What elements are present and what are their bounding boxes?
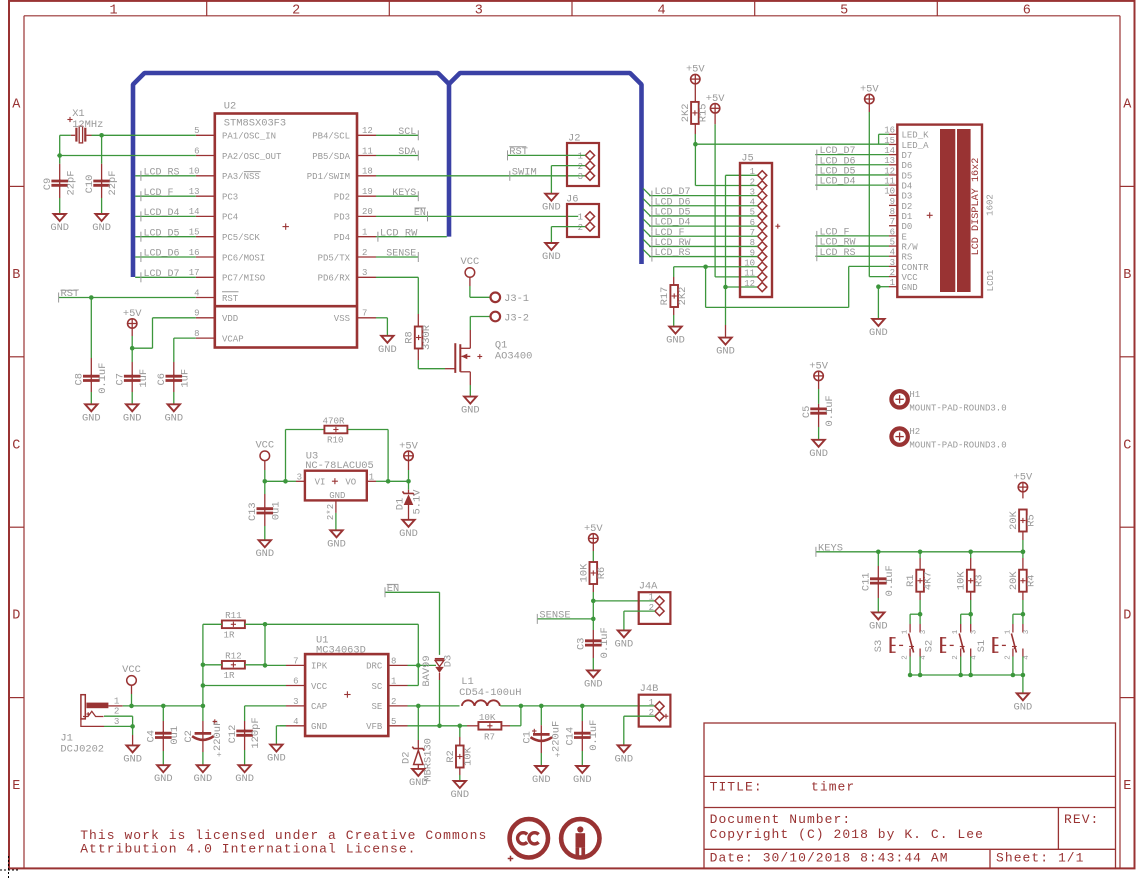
svg-text:3: 3 xyxy=(362,268,367,278)
svg-text:C5: C5 xyxy=(801,406,813,418)
svg-text:1: 1 xyxy=(750,167,755,177)
svg-text:D3: D3 xyxy=(442,655,454,667)
svg-text:2: 2 xyxy=(902,655,910,660)
svg-text:+5V: +5V xyxy=(809,360,828,372)
svg-text:11: 11 xyxy=(744,269,755,279)
svg-text:GND: GND xyxy=(614,753,633,765)
svg-text:14: 14 xyxy=(189,207,200,217)
svg-text:E: E xyxy=(1123,779,1131,794)
svg-text:D1: D1 xyxy=(902,212,913,222)
svg-text:470R: 470R xyxy=(323,416,346,427)
svg-text:1: 1 xyxy=(578,152,583,162)
svg-text:1602: 1602 xyxy=(985,194,995,216)
svg-text:MC34063D: MC34063D xyxy=(316,645,366,657)
svg-text:KEYS: KEYS xyxy=(818,542,843,554)
svg-text:J6: J6 xyxy=(566,194,578,206)
svg-text:GND: GND xyxy=(1014,701,1033,713)
svg-text:1: 1 xyxy=(902,629,910,634)
svg-text:0.1uF: 0.1uF xyxy=(884,565,896,596)
svg-text:LCD_D7: LCD_D7 xyxy=(144,269,180,280)
svg-text:10K: 10K xyxy=(462,746,474,765)
svg-text:GND: GND xyxy=(123,753,142,765)
svg-text:20K: 20K xyxy=(1008,510,1020,529)
svg-text:C9: C9 xyxy=(42,178,54,190)
svg-text:12: 12 xyxy=(362,126,373,136)
svg-text:A: A xyxy=(1123,98,1132,113)
svg-text:R7: R7 xyxy=(484,731,495,742)
svg-text:PD4: PD4 xyxy=(334,233,350,243)
svg-text:5: 5 xyxy=(840,4,848,19)
svg-text:5: 5 xyxy=(194,126,199,136)
svg-text:CAP: CAP xyxy=(311,702,327,712)
svg-text:R15: R15 xyxy=(698,104,710,123)
svg-text:+5V: +5V xyxy=(584,523,603,535)
svg-text:2: 2 xyxy=(1004,655,1012,660)
svg-text:C1: C1 xyxy=(521,731,533,743)
svg-text:8: 8 xyxy=(391,656,396,666)
svg-text:2*2: 2*2 xyxy=(326,504,336,520)
svg-text:GND: GND xyxy=(378,344,397,356)
svg-text:BAV99: BAV99 xyxy=(421,655,433,686)
svg-text:VDD: VDD xyxy=(222,314,238,324)
svg-text:2: 2 xyxy=(362,248,367,258)
svg-text:220uF: 220uF xyxy=(212,720,224,751)
svg-text:D5: D5 xyxy=(902,171,913,181)
svg-text:PC5/SCK: PC5/SCK xyxy=(222,233,260,243)
svg-text:+5V: +5V xyxy=(860,84,879,96)
svg-text:6: 6 xyxy=(194,146,199,156)
svg-text:J5: J5 xyxy=(741,153,753,165)
svg-text:4: 4 xyxy=(293,717,298,727)
svg-text:timer: timer xyxy=(811,780,855,795)
svg-text:PB5/SDA: PB5/SDA xyxy=(312,152,350,162)
svg-text:Q1: Q1 xyxy=(495,339,507,351)
svg-text:D: D xyxy=(1123,609,1131,624)
svg-text:GND: GND xyxy=(154,773,173,785)
svg-text:IPK: IPK xyxy=(311,662,328,672)
svg-text:VFB: VFB xyxy=(366,722,383,732)
svg-text:GND: GND xyxy=(716,346,735,358)
svg-text:LCD_RS: LCD_RS xyxy=(144,167,180,178)
svg-text:J2: J2 xyxy=(568,133,580,145)
svg-text:2: 2 xyxy=(952,655,960,660)
svg-text:2: 2 xyxy=(750,177,755,187)
svg-text:12MHz: 12MHz xyxy=(72,119,103,131)
svg-text:DRC: DRC xyxy=(366,662,383,672)
svg-text:C12: C12 xyxy=(227,725,239,744)
svg-text:C14: C14 xyxy=(565,727,577,746)
svg-text:GND: GND xyxy=(573,774,592,786)
svg-text:1: 1 xyxy=(952,629,960,634)
svg-text:4: 4 xyxy=(1023,655,1031,660)
svg-text:C6: C6 xyxy=(156,373,168,385)
svg-text:1: 1 xyxy=(1004,629,1012,634)
svg-text:+5V: +5V xyxy=(399,440,418,452)
svg-text:3: 3 xyxy=(293,697,298,707)
svg-text:11: 11 xyxy=(362,146,373,156)
svg-text:3: 3 xyxy=(920,629,928,634)
svg-text:SC: SC xyxy=(371,682,382,692)
svg-text:R10: R10 xyxy=(327,434,344,445)
svg-text:J3-1: J3-1 xyxy=(504,293,529,305)
svg-text:LCD_RS: LCD_RS xyxy=(655,248,691,259)
svg-text:PA3/NSS: PA3/NSS xyxy=(222,172,260,182)
svg-text:20: 20 xyxy=(362,207,373,217)
svg-text:GND: GND xyxy=(542,202,561,214)
svg-text:5: 5 xyxy=(890,237,895,247)
svg-text:LCD_F: LCD_F xyxy=(144,188,174,199)
svg-text:22pF: 22pF xyxy=(107,171,119,196)
svg-text:D6: D6 xyxy=(902,161,913,171)
svg-text:+: + xyxy=(216,750,221,760)
svg-text:0u1: 0u1 xyxy=(270,501,282,520)
svg-text:Attribution 4.0 International: Attribution 4.0 International License. xyxy=(80,842,416,857)
svg-text:R1: R1 xyxy=(905,574,917,586)
svg-text:16: 16 xyxy=(884,126,895,136)
svg-text:PC6/MOSI: PC6/MOSI xyxy=(222,253,265,263)
svg-text:C3: C3 xyxy=(576,638,588,650)
svg-text:RST: RST xyxy=(222,294,239,304)
svg-text:1: 1 xyxy=(649,593,654,603)
svg-text:VCC: VCC xyxy=(902,273,919,283)
svg-text:S1: S1 xyxy=(976,640,988,652)
svg-text:J4A: J4A xyxy=(639,581,658,593)
svg-text:LED_K: LED_K xyxy=(902,131,930,141)
svg-text:MOUNT-PAD-ROUND3.0: MOUNT-PAD-ROUND3.0 xyxy=(909,441,1006,451)
svg-text:5: 5 xyxy=(391,717,396,727)
svg-text:L1: L1 xyxy=(461,676,473,688)
svg-text:+: + xyxy=(555,751,560,761)
svg-text:1uF: 1uF xyxy=(138,369,150,388)
svg-text:2: 2 xyxy=(292,4,300,19)
svg-text:+5V: +5V xyxy=(1014,472,1033,484)
svg-text:S2: S2 xyxy=(924,640,936,652)
svg-text:D: D xyxy=(12,609,20,624)
svg-text:LCD_RS: LCD_RS xyxy=(820,248,856,259)
svg-text:C2: C2 xyxy=(183,730,195,742)
svg-text:PD2: PD2 xyxy=(334,193,350,203)
svg-text:GND: GND xyxy=(267,753,286,765)
svg-text:8: 8 xyxy=(890,207,895,217)
svg-text:SENSE: SENSE xyxy=(386,249,416,260)
svg-text:PC4: PC4 xyxy=(222,213,238,223)
svg-text:+5V: +5V xyxy=(123,308,142,320)
svg-text:REV:: REV: xyxy=(1064,812,1099,827)
svg-text:4: 4 xyxy=(194,288,199,298)
svg-text:8: 8 xyxy=(194,329,199,339)
svg-text:GND: GND xyxy=(82,412,101,424)
svg-text:PD6/RX: PD6/RX xyxy=(318,274,351,284)
svg-text:GND: GND xyxy=(409,777,428,789)
svg-text:GND: GND xyxy=(164,412,183,424)
svg-text:3: 3 xyxy=(578,172,583,182)
svg-text:GND: GND xyxy=(869,327,888,339)
svg-text:B: B xyxy=(1123,268,1131,283)
svg-text:LED_A: LED_A xyxy=(902,141,930,151)
svg-text:R12: R12 xyxy=(225,650,242,661)
svg-text:GND: GND xyxy=(666,335,685,347)
svg-text:+5V: +5V xyxy=(706,93,725,105)
svg-text:C11: C11 xyxy=(861,572,873,591)
svg-text:C8: C8 xyxy=(74,373,86,385)
svg-text:4: 4 xyxy=(890,248,895,258)
svg-text:1: 1 xyxy=(109,4,117,19)
svg-text:E: E xyxy=(12,779,20,794)
svg-text:DCJ0202: DCJ0202 xyxy=(60,744,104,756)
svg-text:2: 2 xyxy=(391,697,396,707)
svg-text:U2: U2 xyxy=(224,101,236,113)
svg-text:VO: VO xyxy=(345,477,356,487)
svg-text:5.1V: 5.1V xyxy=(411,489,423,515)
svg-text:AO3400: AO3400 xyxy=(495,351,532,363)
svg-text:10K: 10K xyxy=(578,563,590,582)
svg-text:D3: D3 xyxy=(902,192,913,202)
svg-text:1: 1 xyxy=(649,698,654,708)
svg-text:3: 3 xyxy=(1023,629,1031,634)
svg-text:VCC: VCC xyxy=(255,439,274,451)
svg-text:0.1uF: 0.1uF xyxy=(588,720,600,751)
svg-text:13: 13 xyxy=(189,187,200,197)
svg-text:9: 9 xyxy=(194,309,199,319)
svg-text:9: 9 xyxy=(890,197,895,207)
svg-text:TITLE:: TITLE: xyxy=(710,780,763,795)
svg-text:VCC: VCC xyxy=(311,682,328,692)
svg-text:1R: 1R xyxy=(224,670,236,681)
svg-text:R2: R2 xyxy=(445,750,457,762)
svg-text:VCAP: VCAP xyxy=(222,334,244,344)
svg-text:Copyright (C) 2018 by K. C. Le: Copyright (C) 2018 by K. C. Lee xyxy=(710,827,984,842)
svg-text:GND: GND xyxy=(450,789,469,801)
svg-text:VSS: VSS xyxy=(334,314,350,324)
svg-text:GND: GND xyxy=(327,538,346,550)
svg-text:C4: C4 xyxy=(146,730,158,742)
svg-text:LCD_D6: LCD_D6 xyxy=(144,249,180,260)
svg-text:RS: RS xyxy=(902,253,913,263)
svg-text:H1: H1 xyxy=(909,390,920,400)
svg-text:22pF: 22pF xyxy=(65,171,77,196)
svg-text:C13: C13 xyxy=(247,502,259,521)
svg-text:R8: R8 xyxy=(404,331,416,343)
svg-text:3: 3 xyxy=(114,716,120,727)
svg-text:VI: VI xyxy=(315,477,326,487)
svg-text:PD5/TX: PD5/TX xyxy=(318,253,351,263)
svg-text:12: 12 xyxy=(744,279,755,289)
svg-text:PC7/MISO: PC7/MISO xyxy=(222,274,265,284)
svg-text:R17: R17 xyxy=(659,287,671,306)
svg-text:GND: GND xyxy=(50,222,69,234)
svg-text:1: 1 xyxy=(362,228,367,238)
svg-text:15: 15 xyxy=(189,228,200,238)
svg-text:S3: S3 xyxy=(873,640,885,652)
svg-text:2: 2 xyxy=(890,268,895,278)
svg-text:10: 10 xyxy=(884,187,895,197)
svg-text:NC-78LACU05: NC-78LACU05 xyxy=(305,460,374,472)
svg-text:H2: H2 xyxy=(909,427,920,437)
svg-text:LCD1: LCD1 xyxy=(986,270,996,292)
svg-text:4: 4 xyxy=(657,4,665,19)
svg-text:VCC: VCC xyxy=(461,256,480,268)
svg-text:MOUNT-PAD-ROUND3.0: MOUNT-PAD-ROUND3.0 xyxy=(909,403,1006,413)
svg-text:PA1/OSC_IN: PA1/OSC_IN xyxy=(222,132,276,142)
svg-text:18: 18 xyxy=(362,167,373,177)
svg-text:CONTR: CONTR xyxy=(902,263,930,273)
svg-text:PC3: PC3 xyxy=(222,193,238,203)
svg-text:LCD_D4: LCD_D4 xyxy=(144,208,180,219)
svg-text:1R: 1R xyxy=(224,630,236,641)
svg-text:GND: GND xyxy=(235,773,254,785)
svg-text:GND: GND xyxy=(615,638,634,650)
svg-text:R/W: R/W xyxy=(902,242,919,252)
svg-text:D7: D7 xyxy=(902,151,913,161)
svg-text:D2: D2 xyxy=(401,752,413,764)
svg-text:10K: 10K xyxy=(956,571,968,590)
svg-text:7: 7 xyxy=(362,309,367,319)
svg-text:R5: R5 xyxy=(1026,514,1038,526)
svg-text:Sheet: 1/1: Sheet: 1/1 xyxy=(996,851,1085,866)
svg-text:0u1: 0u1 xyxy=(169,726,181,745)
svg-text:0.1uF: 0.1uF xyxy=(599,627,611,658)
svg-text:2: 2 xyxy=(578,223,583,233)
svg-text:3: 3 xyxy=(890,258,895,268)
svg-text:GND: GND xyxy=(542,251,561,263)
svg-text:4K7: 4K7 xyxy=(923,571,935,590)
svg-text:SWIM: SWIM xyxy=(512,166,537,178)
svg-text:PA2/OSC_OUT: PA2/OSC_OUT xyxy=(222,152,282,162)
svg-text:GND: GND xyxy=(869,620,888,632)
svg-text:PD1/SWIM: PD1/SWIM xyxy=(307,172,350,182)
svg-text:+5V: +5V xyxy=(686,64,705,76)
svg-text:2K2: 2K2 xyxy=(677,287,689,306)
svg-text:SCL: SCL xyxy=(398,127,416,138)
svg-text:4: 4 xyxy=(920,655,928,660)
svg-text:10K: 10K xyxy=(479,712,496,723)
svg-text:GND: GND xyxy=(311,722,327,732)
svg-text:SE: SE xyxy=(371,702,382,712)
svg-text:E: E xyxy=(902,232,907,242)
svg-text:GND: GND xyxy=(809,448,828,460)
svg-text:D4: D4 xyxy=(902,182,913,192)
svg-text:4: 4 xyxy=(971,655,979,660)
svg-text:C10: C10 xyxy=(84,175,96,194)
svg-text:16: 16 xyxy=(189,248,200,258)
svg-text:330R: 330R xyxy=(421,325,433,350)
svg-text:R3: R3 xyxy=(973,574,985,586)
svg-text:LCD_D4: LCD_D4 xyxy=(820,177,856,188)
svg-text:D0: D0 xyxy=(902,222,913,232)
svg-text:20K: 20K xyxy=(1008,571,1020,590)
svg-text:C7: C7 xyxy=(114,373,126,385)
svg-text:10: 10 xyxy=(189,167,200,177)
svg-text:VCC: VCC xyxy=(122,664,141,676)
svg-text:C: C xyxy=(12,438,20,453)
svg-text:GND: GND xyxy=(399,528,418,540)
svg-text:3: 3 xyxy=(971,629,979,634)
svg-text:17: 17 xyxy=(189,268,200,278)
svg-text:D1: D1 xyxy=(394,498,406,510)
svg-text:GND: GND xyxy=(461,405,480,417)
svg-text:GND: GND xyxy=(194,773,213,785)
svg-text:RST: RST xyxy=(509,146,528,158)
svg-text:GND: GND xyxy=(584,678,603,690)
svg-text:GND: GND xyxy=(92,222,111,234)
svg-text:LCD_RW: LCD_RW xyxy=(380,227,418,239)
svg-text:PD3: PD3 xyxy=(334,213,350,223)
svg-text:7: 7 xyxy=(293,656,298,666)
svg-text:D2: D2 xyxy=(902,202,913,212)
svg-text:PB4/SCL: PB4/SCL xyxy=(312,132,350,142)
svg-text:LCD DISPLAY 16x2: LCD DISPLAY 16x2 xyxy=(971,158,982,256)
svg-text:J3-2: J3-2 xyxy=(504,312,529,324)
svg-text:3: 3 xyxy=(475,4,483,19)
svg-text:R4: R4 xyxy=(1026,574,1038,586)
svg-text:GND: GND xyxy=(532,774,551,786)
svg-text:GND: GND xyxy=(123,412,142,424)
svg-text:15: 15 xyxy=(884,136,895,146)
svg-text:120pF: 120pF xyxy=(250,717,262,748)
svg-text:R11: R11 xyxy=(225,610,242,621)
svg-text:CD54-100uH: CD54-100uH xyxy=(459,687,521,699)
svg-text:6: 6 xyxy=(890,227,895,237)
svg-text:19: 19 xyxy=(362,187,373,197)
svg-text:C: C xyxy=(1123,438,1131,453)
svg-text:Date: 30/10/2018 8:43:44 AM: Date: 30/10/2018 8:43:44 AM xyxy=(710,851,949,866)
svg-text:LCD_D5: LCD_D5 xyxy=(144,228,180,239)
svg-text:2K2: 2K2 xyxy=(680,104,692,123)
svg-text:1: 1 xyxy=(578,213,583,223)
svg-text:1: 1 xyxy=(890,278,895,288)
svg-text:J4B: J4B xyxy=(640,683,659,695)
svg-text:220uF: 220uF xyxy=(551,721,563,752)
svg-text:0.1uF: 0.1uF xyxy=(824,395,836,426)
svg-text:GND: GND xyxy=(329,491,345,501)
svg-text:1uF: 1uF xyxy=(179,369,191,388)
svg-text:MBRS130: MBRS130 xyxy=(423,738,435,782)
svg-text:A: A xyxy=(12,98,21,113)
svg-text:EN: EN xyxy=(414,208,426,219)
svg-text:GND: GND xyxy=(255,548,274,560)
svg-text:0.1uF: 0.1uF xyxy=(97,363,109,394)
svg-text:KEYS: KEYS xyxy=(392,188,416,199)
svg-text:1: 1 xyxy=(391,677,396,687)
svg-text:GND: GND xyxy=(902,283,918,293)
svg-text:R6: R6 xyxy=(596,567,608,579)
svg-text:B: B xyxy=(12,268,20,283)
svg-text:6: 6 xyxy=(293,677,298,687)
svg-text:2: 2 xyxy=(578,162,583,172)
svg-text:Document Number:: Document Number: xyxy=(710,812,852,827)
svg-text:SDA: SDA xyxy=(398,147,416,158)
svg-text:7: 7 xyxy=(890,217,895,227)
svg-text:6: 6 xyxy=(1023,4,1031,19)
svg-text:STM8SX03F3: STM8SX03F3 xyxy=(224,118,286,130)
svg-text:SENSE: SENSE xyxy=(539,610,570,622)
